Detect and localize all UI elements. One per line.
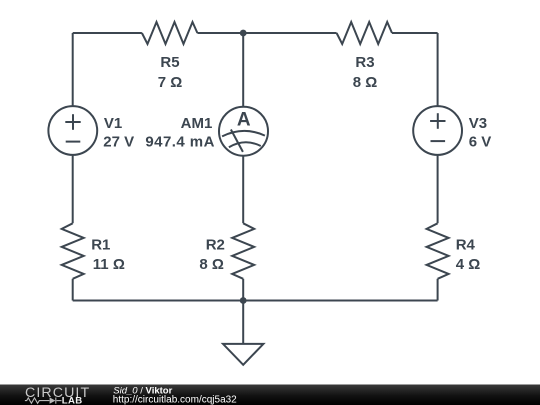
svg-text:R3: R3 [355, 54, 374, 71]
ammeter AM1 [219, 107, 268, 156]
node bottom junction [240, 297, 247, 304]
resistor R3 [337, 22, 392, 44]
wire left vertical middle (V1 to R1) [72, 155, 74, 223]
wire ground stub [242, 301, 244, 344]
resistor R4 [427, 223, 449, 278]
resistor R1 [62, 223, 84, 278]
svg-text:R1: R1 [91, 237, 110, 254]
svg-text:7 Ω: 7 Ω [158, 74, 183, 91]
svg-text:R4: R4 [456, 237, 476, 254]
svg-text:947.4 mA: 947.4 mA [145, 134, 214, 151]
svg-text:R5: R5 [160, 54, 179, 71]
svg-text:27 V: 27 V [103, 134, 134, 151]
wire top-middle (R5 to R3 across node) [197, 32, 336, 34]
svg-text:8 Ω: 8 Ω [199, 256, 224, 273]
resistor R5 [142, 22, 198, 44]
svg-text:4 Ω: 4 Ω [456, 256, 481, 273]
voltage source V1 [48, 106, 97, 155]
wire left vertical lower (R1 to bottom rail) [72, 279, 74, 301]
wire bottom rail [73, 300, 438, 302]
svg-text:http://circuitlab.com/cqj5a32: http://circuitlab.com/cqj5a32 [113, 395, 237, 405]
svg-text:A: A [237, 110, 251, 131]
svg-text:11 Ω: 11 Ω [93, 256, 125, 273]
svg-text:AM1: AM1 [181, 115, 213, 132]
wire middle vertical lower (R2 to bottom rail) [242, 279, 244, 301]
resistor R2 [232, 223, 254, 278]
svg-text:V3: V3 [469, 115, 487, 132]
wire middle vertical middle (AM1 to R2) [242, 156, 244, 224]
wire top-left (V1 top corner to R5) [73, 32, 142, 34]
CircuitLab logo mini-schematic (resistor + diode) [25, 398, 62, 404]
svg-text:R2: R2 [206, 237, 225, 254]
voltage source V3 [413, 106, 462, 155]
svg-text:V1: V1 [104, 115, 122, 132]
wire left vertical upper (to V1) [72, 33, 74, 106]
svg-text:8 Ω: 8 Ω [353, 74, 378, 91]
node top junction [240, 30, 247, 37]
svg-text:6 V: 6 V [469, 134, 492, 151]
wire right vertical lower (R4 to bottom rail) [437, 279, 439, 301]
wire right vertical upper (to V3) [437, 33, 439, 106]
ground [223, 344, 263, 365]
svg-text:LAB: LAB [62, 395, 83, 405]
wire middle vertical upper (node to AM1) [242, 33, 244, 107]
wire top-right (R3 to V3 corner) [392, 32, 438, 34]
wire right vertical middle (V3 to R4) [437, 155, 439, 223]
